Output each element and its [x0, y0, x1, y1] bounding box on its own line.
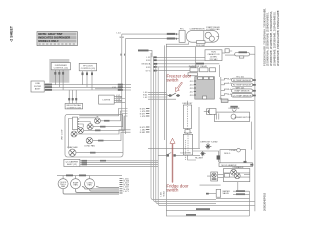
- sheet number (left margin, rotated): [9, 25, 13, 42]
- fan motor M4: [71, 130, 131, 137]
- wire to PTC (upper): [122, 33, 179, 35]
- svg-text:WHT 101: WHT 101: [236, 87, 246, 89]
- svg-text:YEL 100: YEL 100: [236, 77, 245, 79]
- icemaker right feed wire: [251, 122, 253, 150]
- fuse on board output: [219, 98, 254, 102]
- svg-text:N 481: N 481: [140, 132, 146, 134]
- svg-text:GY 5: GY 5: [146, 71, 152, 73]
- bottom bus wires: [166, 208, 249, 216]
- overload circle: [209, 36, 214, 41]
- svg-text:HI-LIMIT: HI-LIMIT: [195, 158, 204, 160]
- defrost heater 1: [183, 103, 194, 128]
- svg-text:L 478: L 478: [140, 116, 146, 118]
- wire rows above board: [141, 56, 219, 72]
- red arrow to fridge door switch: [170, 138, 175, 182]
- svg-text:& OVERLOAD: & OVERLOAD: [206, 28, 220, 31]
- svg-text:FF TEMP SENSOR: FF TEMP SENSOR: [233, 80, 252, 82]
- svg-text:FAN: FAN: [88, 183, 93, 186]
- cond fan: [85, 176, 95, 189]
- fan wire bundle (gray): [63, 187, 119, 195]
- svg-text:ZISP480NMB, PSB42LGMABB, PSB48: ZISP480NMB, PSB42LGMABB, PSB48LGMABB: [276, 10, 280, 66]
- svg-text:LIGHTS: LIGHTS: [103, 100, 111, 102]
- svg-text:DEFROST: DEFROST: [183, 103, 194, 105]
- part number (bottom-right, rotated): [263, 192, 267, 211]
- icemaker assembly: [224, 166, 250, 182]
- svg-text:MODELS ONLY.: MODELS ONLY.: [38, 39, 59, 43]
- water valve wires: [216, 190, 250, 216]
- fan motor M1: [94, 111, 127, 124]
- compressor internal box: [197, 41, 206, 44]
- svg-text:FAN: FAN: [61, 185, 66, 188]
- harness connector labels: [140, 109, 150, 135]
- svg-text:QC DAMPER: QC DAMPER: [66, 160, 79, 163]
- fan motor M2: [87, 114, 127, 130]
- ambient thermistor: [221, 94, 256, 98]
- svg-text:ICEMAKER: ICEMAKER: [233, 166, 244, 169]
- main control board (gray): [189, 77, 214, 100]
- icemaker left connector: [211, 172, 218, 181]
- defrost limit thermostat (star): [200, 141, 218, 150]
- svg-text:N 461: N 461: [116, 101, 122, 103]
- wire L1 vertical drop: [121, 34, 123, 130]
- svg-text:CONTROL (J6): CONTROL (J6): [67, 107, 82, 109]
- dispenser gray tint area: [49, 59, 69, 83]
- svg-text:RELAY: RELAY: [200, 65, 207, 68]
- wire to PTC (lower): [125, 38, 179, 40]
- svg-text:AUGER MOTOR: AUGER MOTOR: [235, 116, 251, 119]
- auger motor connector: [207, 109, 215, 115]
- harness wires (gray verticals): [151, 53, 255, 206]
- lights wires: [114, 95, 125, 103]
- bus wire 3: [44, 89, 131, 91]
- icemaker funnel connector: [229, 106, 240, 113]
- note: gray tint legend box: [37, 32, 77, 46]
- svg-text:ZISB480NMB, ZISW360NMB, ZISW42: ZISB480NMB, ZISW360NMB, ZISW420NMBSS,: [269, 11, 273, 66]
- FF door wires: [82, 71, 94, 90]
- svg-text:COMPRESSOR: COMPRESSOR: [189, 29, 205, 31]
- board right vertical wire: [218, 65, 220, 77]
- bus wire 1: [44, 84, 131, 86]
- svg-text:DOOR SW: DOOR SW: [181, 153, 191, 155]
- svg-text:ASSY (J2): ASSY (J2): [67, 163, 77, 166]
- defrost thermostat 2 (star): [195, 151, 206, 160]
- svg-text:ZISS480NMA, ZISB360NMB, ZISB42: ZISS480NMA, ZISB360NMB, ZISB420NMBSS,: [266, 12, 270, 66]
- bus wire 2: [44, 86, 131, 88]
- quick chill fan: [58, 176, 68, 189]
- evap thermistor: [221, 87, 256, 92]
- svg-text:PSS26MGMA BB, ZISS360NMA, ZISS: PSS26MGMA BB, ZISS360NMA, ZISS420NMABB,: [262, 8, 266, 66]
- svg-text:CONTROL (J4): CONTROL (J4): [54, 67, 69, 69]
- svg-text:CONTROL (J9): CONTROL (J9): [81, 68, 96, 70]
- svg-text:MOLD: MOLD: [224, 153, 231, 155]
- thermistor feed vertical: [220, 77, 222, 100]
- svg-text:ASSY: ASSY: [35, 87, 41, 90]
- lights box: [99, 95, 115, 104]
- icemaker mold body box: [220, 148, 247, 163]
- model list (right margin, rotated): [262, 8, 280, 66]
- svg-text:EVAP FAN: EVAP FAN: [67, 146, 77, 149]
- svg-text:EVAP SENSOR: EVAP SENSOR: [235, 90, 250, 93]
- defrost heater 2: [183, 132, 192, 156]
- svg-text:INVERTER: INVERTER: [189, 66, 200, 68]
- damper wires: [80, 160, 158, 167]
- freezer door switch label (red): [167, 73, 192, 82]
- compressor return wire: [121, 42, 250, 216]
- svg-text:ZISW480NMB, ZISP360NMB, ZISP42: ZISW480NMB, ZISP360NMB, ZISP420NMBSS,: [273, 11, 277, 66]
- fan connector column: [120, 178, 130, 193]
- quick chill control: [65, 90, 83, 109]
- upper light feed wire: [95, 87, 122, 89]
- condenser fan capacitor box: [225, 49, 235, 55]
- svg-text:QC TEMP SENSOR: QC TEMP SENSOR: [233, 95, 252, 97]
- svg-text:switch: switch: [167, 78, 180, 83]
- heater link wires: [188, 101, 197, 160]
- evap fan: [71, 176, 81, 189]
- dispenser wires: [54, 70, 64, 90]
- machine compartment enclosure: [65, 114, 123, 157]
- svg-text:-2 SHEET: -2 SHEET: [9, 25, 13, 42]
- condenser fan motor: [84, 132, 130, 147]
- misc wire labels top: [117, 33, 125, 40]
- fridge door switch symbol: [148, 107, 200, 160]
- auger motor box: [215, 112, 251, 122]
- svg-text:switch: switch: [167, 188, 180, 193]
- fridge door switch label (red): [167, 183, 190, 192]
- svg-text:200D2645P002: 200D2645P002: [263, 192, 267, 211]
- wires from terminal block: [69, 118, 98, 149]
- compressor U (shell): [186, 26, 220, 42]
- svg-text:L 471: L 471: [124, 191, 130, 193]
- icemaker fill tube heater (thin box): [219, 163, 253, 167]
- svg-text:PTC: PTC: [180, 29, 185, 31]
- svg-text:VALVE: VALVE: [223, 192, 230, 195]
- red arrow to freezer door switch: [176, 82, 183, 91]
- icemaker feed wires: [200, 175, 238, 192]
- svg-text:DEFROST T-STAT: DEFROST T-STAT: [200, 141, 218, 144]
- compartment interconnect wire (top): [79, 109, 127, 116]
- relay boxes row: [188, 47, 216, 76]
- svg-text:370 VAC: 370 VAC: [209, 58, 218, 61]
- FF thermistor: [221, 77, 256, 82]
- water valve: [206, 189, 230, 197]
- svg-text:N 464: N 464: [164, 191, 166, 196]
- defrost fuse: [193, 151, 226, 164]
- fan motor M3: [78, 116, 128, 133]
- FZ thermistor: [221, 83, 256, 87]
- terminal block: [73, 117, 80, 130]
- evap fan motor: [67, 146, 123, 156]
- icemaker connector: [204, 109, 216, 115]
- PTC start device box: [179, 29, 185, 43]
- svg-text:L 463: L 463: [161, 192, 163, 197]
- wire N vertical drop: [124, 39, 126, 134]
- svg-text:GN 460 A: GN 460 A: [141, 63, 151, 66]
- dispenser control board: [51, 63, 70, 70]
- main left vertical wire: [163, 45, 165, 140]
- svg-text:T-STAT: T-STAT: [229, 149, 237, 152]
- run capacitor spec box: [205, 50, 225, 61]
- FF door control board: [79, 63, 96, 71]
- freezer door switch symbol: [143, 92, 180, 99]
- svg-text:FAN: FAN: [74, 183, 79, 186]
- fan feed wire: [57, 175, 122, 177]
- start relay circle: [205, 32, 211, 38]
- svg-text:UNIT COMP: UNIT COMP: [62, 129, 64, 140]
- condenser fan motor: [235, 51, 255, 58]
- svg-text:COND FAN: COND FAN: [84, 144, 95, 147]
- frame top edge: [166, 47, 255, 212]
- line filter assy box: [31, 81, 44, 92]
